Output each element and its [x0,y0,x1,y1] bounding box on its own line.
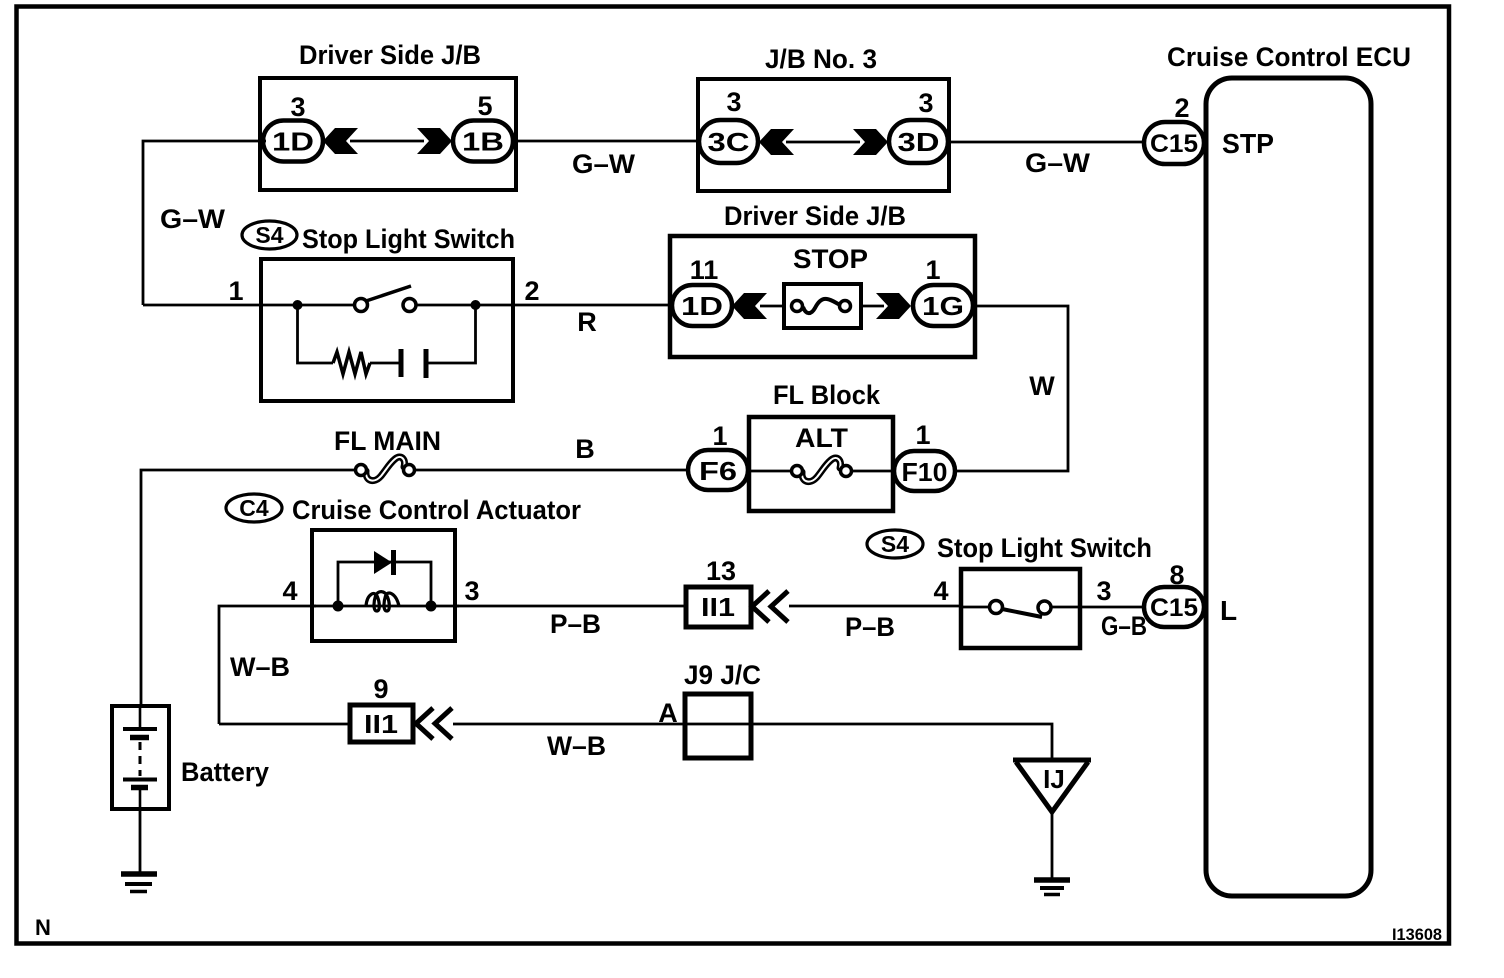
wire battery to ground [139,809,142,872]
arrow right (into 1G) [876,293,911,319]
wire inside switch 2 [961,606,990,609]
junction dot right [426,601,437,612]
junction connector J9 J/C box [685,694,751,758]
svg-text:1G: 1G [922,291,964,321]
diode [374,551,392,574]
wire through actuator [312,605,459,608]
connector C15 (L) [1144,587,1204,627]
wire pin2 to 1D [513,304,674,307]
stop light switch box (2) [961,569,1080,648]
connector 1G [913,285,973,326]
arrow right (into 1B) [417,128,452,154]
svg-text:1: 1 [712,421,727,451]
svg-text:W–B: W–B [547,731,606,761]
stop light switch box [261,259,513,401]
svg-text:J/B No. 3: J/B No. 3 [765,44,877,74]
svg-text:FL MAIN: FL MAIN [334,426,441,456]
arrow left (into 1D) [732,293,767,319]
svg-text:II1: II1 [701,592,735,622]
svg-text:Cruise Control ECU: Cruise Control ECU [1167,42,1411,72]
svg-text:1D: 1D [272,127,314,157]
wire inside switch [261,304,355,307]
connector code S4 oval (2) [867,530,923,558]
wire G-W from corner to 1D [143,141,266,305]
svg-text:G–B: G–B [1101,611,1147,641]
arrow right (into 3D) [853,129,888,155]
svg-text:1: 1 [925,255,940,285]
svg-text:F10: F10 [902,457,948,487]
svg-text:5: 5 [477,91,492,121]
connector 3D [889,120,948,163]
junction box Driver Side J/B (top) [260,78,516,190]
svg-text:W–B: W–B [230,652,290,682]
connector C15 (STP) [1144,122,1204,164]
svg-text:1B: 1B [462,127,504,157]
resistor zigzag [333,352,370,374]
svg-text:F6: F6 [699,456,737,486]
connector F10 [894,451,955,491]
junction dot left [333,601,344,612]
svg-text:S4: S4 [255,222,283,248]
svg-text:Cruise Control Actuator: Cruise Control Actuator [292,495,581,525]
switch contacts 2 [990,601,1003,614]
svg-text:Driver Side J/B: Driver Side J/B [299,40,481,70]
wire IJ to ground [1051,812,1054,878]
wire to II1 (9) [219,723,352,726]
svg-text:G–W: G–W [160,204,226,234]
arrow left (into 3C) [759,129,794,155]
junction box Driver Side J/B (middle) [670,236,975,357]
fusible link FL MAIN [366,457,405,481]
wire fuse to arrow [861,305,884,308]
svg-text:C15: C15 [1150,594,1198,622]
svg-text:3: 3 [464,576,479,606]
wire ALT fuse to F10 [851,470,896,473]
svg-text:2: 2 [524,276,539,306]
wire 1B to 3C [513,140,701,143]
wire between arrows [350,140,424,143]
svg-text:ALT: ALT [795,423,849,453]
fuse element [803,299,841,313]
svg-text:3: 3 [918,88,933,118]
svg-text:G–W: G–W [1025,148,1091,178]
svg-text:R: R [577,307,597,337]
junction connector II1 (13) [686,587,751,627]
wire actuator to II1 [455,605,688,608]
junction dot right [471,300,481,310]
wire resistor to capacitor [370,362,401,365]
wire W-B to IJ [453,724,1052,759]
svg-text:4: 4 [933,576,948,606]
svg-text:FL Block: FL Block [773,380,881,410]
wire W-B vertical and into actuator [219,606,316,724]
svg-text:Stop Light Switch: Stop Light Switch [937,533,1152,563]
svg-text:S4: S4 [881,531,909,557]
svg-text:P–B: P–B [845,612,895,642]
svg-text:C4: C4 [239,495,269,521]
connector 3C [699,120,758,163]
wire 3D to C15 [948,141,1146,144]
svg-text:3: 3 [726,87,741,117]
svg-text:3D: 3D [898,127,940,157]
wire W from 1G down to FL block row [957,306,1068,471]
inductor coil [366,592,399,611]
svg-text:G–W: G–W [572,149,636,179]
svg-text:9: 9 [373,674,388,704]
connector 1B [453,121,513,162]
wire F6 to ALT fuse [748,470,794,473]
wire chevron to switch [789,605,963,608]
resistor-capacitor branch [298,305,334,363]
svg-text:13: 13 [706,556,736,586]
junction connector II1 (9) [350,705,413,742]
wire into switch [143,304,263,307]
connector F6 [688,450,748,490]
svg-text:Battery: Battery [181,757,269,787]
connector code C4 oval [226,494,282,522]
ground (battery) [121,874,157,892]
cruise control actuator box [312,530,455,641]
svg-text:W: W [1029,371,1055,401]
fuse STOP box [784,284,861,328]
switch contact circles and lever [355,299,368,312]
svg-text:4: 4 [282,576,297,606]
fusible link ALT [802,458,841,482]
svg-text:3C: 3C [708,127,750,157]
ground point IJ triangle [1013,760,1091,812]
svg-text:J9 J/C: J9 J/C [684,660,761,690]
svg-text:B: B [575,434,595,464]
svg-text:II1: II1 [364,709,398,739]
svg-text:1D: 1D [681,291,723,321]
svg-text:11: 11 [690,255,719,285]
battery internal symbol [123,706,157,809]
svg-text:Driver Side J/B: Driver Side J/B [724,201,906,231]
battery box [112,706,169,809]
connector 1D (middle) [672,285,732,326]
svg-text:IJ: IJ [1043,764,1065,794]
FL block box [749,417,893,511]
svg-text:3: 3 [290,92,305,122]
connector code S4 oval [242,221,297,249]
chevrons (II1 13) [752,591,769,622]
chevrons (II1 9) [416,708,433,739]
svg-text:P–B: P–B [550,609,601,639]
svg-text:1: 1 [915,420,930,450]
svg-text:Stop Light Switch: Stop Light Switch [302,224,515,254]
capacitor plates [399,349,404,377]
connector 1D [263,121,323,162]
svg-text:2: 2 [1174,93,1189,123]
svg-text:STP: STP [1222,128,1274,159]
junction dot left [293,300,303,310]
diode branch [338,562,431,606]
svg-text:A: A [658,698,678,728]
svg-text:1: 1 [228,276,243,306]
wire arrow to fuse [760,305,784,308]
junction box J/B No. 3 [698,79,949,191]
wire between arrows [786,141,860,144]
svg-text:3: 3 [1096,576,1111,606]
wire FL MAIN to F6 [415,469,690,472]
arrow left (into 1D) [323,128,358,154]
svg-text:STOP: STOP [793,244,868,274]
ground (IJ) [1034,880,1070,895]
wire battery to FL MAIN [141,470,356,706]
Cruise Control ECU box [1206,78,1371,896]
wire switch to C15 L [1080,606,1146,609]
svg-text:N: N [35,915,51,940]
svg-text:C15: C15 [1150,130,1198,158]
svg-text:L: L [1220,595,1237,626]
svg-text:I13608: I13608 [1392,925,1442,944]
